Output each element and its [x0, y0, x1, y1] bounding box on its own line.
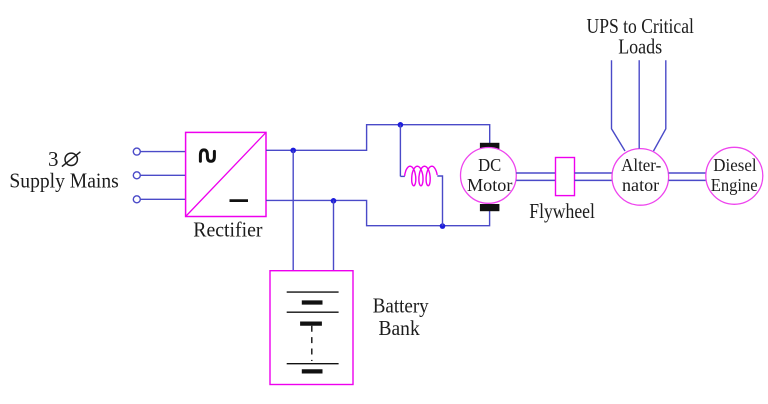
svg-text:Motor: Motor [467, 175, 512, 195]
inductor coil [405, 166, 438, 186]
svg-text:Engine: Engine [711, 175, 758, 195]
wire phase 1 [140, 151, 185, 153]
wire rectifier bottom output to motor bottom brush [266, 200, 490, 225]
label: 3 phase symbol [48, 147, 80, 171]
node inductor tap junction [398, 122, 404, 128]
wire UPS feed middle [638, 60, 640, 148]
wire phase 2 [140, 174, 185, 176]
battery cell 1 plate short [302, 300, 323, 304]
dc motor bottom brush [480, 204, 500, 211]
battery cell 1 plate long [287, 291, 339, 293]
wire inductor branch drop [399, 125, 401, 177]
wire rectifier top output to motor top brush [266, 125, 490, 151]
battery cell 2 plate long [287, 311, 339, 313]
wire phase 3 [140, 198, 185, 200]
rectifier DC dash [230, 199, 249, 202]
battery bank box [270, 271, 353, 385]
svg-text:DC: DC [478, 155, 501, 175]
battery cell 2 plate short [300, 322, 322, 326]
svg-text:Rectifier: Rectifier [193, 218, 262, 242]
battery cell 3 plate short [302, 369, 323, 373]
svg-text:3: 3 [48, 147, 59, 171]
svg-text:nator: nator [622, 175, 659, 195]
alternator body [612, 149, 669, 206]
shaft motor to flywheel [516, 172, 555, 174]
battery dashed continuation [311, 326, 313, 361]
svg-text:Bank: Bank [379, 316, 421, 340]
dc motor top brush [480, 143, 500, 150]
rectifier AC symbol [200, 150, 214, 161]
svg-text:Flywheel: Flywheel [529, 199, 595, 223]
rectifier diagonal [186, 132, 266, 216]
shaft alternator to diesel engine [669, 172, 706, 174]
terminal circle phase 2 [133, 172, 140, 179]
node inductor bottom junction [440, 223, 446, 229]
svg-text:Supply Mains: Supply Mains [9, 169, 118, 193]
svg-text:Diesel: Diesel [713, 155, 756, 175]
wire UPS feed left [612, 60, 626, 151]
wire battery negative lead [333, 200, 335, 270]
rectifier box [186, 132, 266, 216]
diesel engine body [706, 147, 763, 204]
flywheel [556, 158, 575, 196]
shaft flywheel to alternator [575, 172, 613, 174]
svg-text:Alter-: Alter- [621, 155, 661, 175]
node battery negative junction [331, 198, 337, 204]
terminal circle phase 1 [133, 148, 140, 155]
svg-text:Loads: Loads [618, 35, 662, 59]
dc motor body [461, 148, 517, 204]
wire inductor to bottom rail [437, 176, 442, 226]
battery cell 3 plate long [287, 363, 339, 365]
wire battery positive lead [292, 150, 294, 270]
wire UPS feed right [654, 60, 666, 151]
terminal circle phase 3 [133, 196, 140, 203]
svg-text:Battery: Battery [373, 294, 429, 318]
node battery positive junction [290, 148, 296, 154]
